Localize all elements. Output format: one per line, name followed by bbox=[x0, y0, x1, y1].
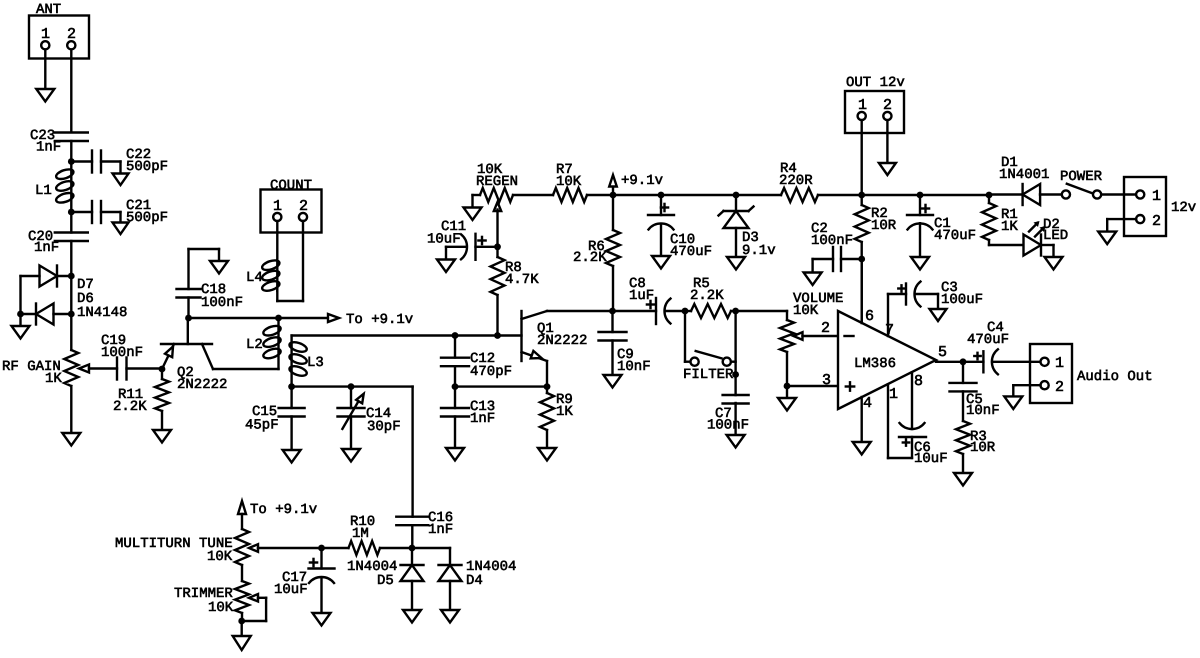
switch POWER bbox=[1062, 184, 1101, 199]
wire bbox=[70, 386, 72, 433]
wire bbox=[241, 613, 243, 621]
inductor L4 bbox=[261, 259, 281, 293]
label pin4 bbox=[863, 395, 872, 412]
svg-text:1: 1 bbox=[858, 97, 867, 114]
label 1N4004 D5 bbox=[347, 559, 397, 589]
wire rail bbox=[920, 194, 989, 196]
label 1N4004 D4 bbox=[466, 559, 516, 589]
wire pin4 bbox=[861, 397, 863, 442]
wire bbox=[734, 311, 736, 395]
label Q2 2N2222 bbox=[177, 365, 227, 393]
switch FILTER bbox=[691, 351, 731, 366]
svg-text:9.1v: 9.1v bbox=[742, 243, 776, 259]
node bbox=[68, 273, 75, 280]
resistor R9 bbox=[540, 387, 554, 448]
label pin5 bbox=[938, 344, 947, 361]
wire pin7 bbox=[887, 294, 889, 336]
potentiometer RF GAIN 1K bbox=[64, 350, 117, 386]
svg-text:REGEN: REGEN bbox=[476, 174, 518, 190]
svg-text:220R: 220R bbox=[779, 173, 813, 189]
potentiometer VOLUME 10K bbox=[780, 311, 838, 386]
potentiometer REGEN 10K bbox=[473, 188, 514, 247]
label To +9.1v bbox=[346, 312, 413, 328]
label C1 470uF bbox=[934, 216, 976, 244]
label RF GAIN 1K bbox=[2, 359, 62, 387]
svg-text:1: 1 bbox=[1055, 355, 1064, 372]
label C17 10uF bbox=[274, 570, 308, 598]
svg-text:1K: 1K bbox=[45, 371, 62, 387]
capacitor C21 bbox=[92, 201, 101, 223]
label C13 1nF bbox=[470, 399, 495, 427]
inductor L3 bbox=[288, 336, 308, 387]
wire pin6 bbox=[861, 259, 863, 323]
ground bbox=[604, 375, 622, 388]
svg-text:10K: 10K bbox=[556, 174, 582, 190]
resistor R2 bbox=[855, 195, 869, 259]
label pin7 bbox=[885, 322, 894, 339]
svg-text:3: 3 bbox=[822, 372, 831, 389]
wire bbox=[1107, 219, 1136, 232]
svg-text:D4: D4 bbox=[466, 573, 483, 589]
ground bbox=[36, 89, 54, 102]
op-amp U1 LM386 bbox=[838, 311, 936, 409]
svg-text:2: 2 bbox=[1055, 379, 1064, 396]
ground bbox=[804, 273, 822, 286]
wire bbox=[70, 241, 72, 276]
label C14 30pF bbox=[366, 406, 401, 435]
capacitor C2 bbox=[833, 247, 862, 271]
label POWER bbox=[1060, 169, 1103, 185]
svg-text:Audio Out: Audio Out bbox=[1077, 369, 1153, 385]
capacitor C14 variable bbox=[338, 387, 365, 449]
ground bbox=[954, 473, 972, 486]
wire bbox=[731, 361, 736, 363]
label C23 1nF bbox=[30, 128, 61, 156]
arrow to +9.1v bbox=[328, 314, 339, 322]
ground bbox=[233, 636, 251, 650]
svg-text:4.7K: 4.7K bbox=[505, 272, 539, 288]
transistor Q1 bbox=[522, 311, 613, 387]
wire bbox=[989, 244, 1023, 246]
ground bbox=[464, 208, 482, 221]
svg-text:10nF: 10nF bbox=[966, 403, 1000, 419]
resistor R4 bbox=[781, 188, 818, 202]
diode D6 bbox=[36, 304, 54, 325]
wire bbox=[71, 160, 92, 162]
resistor R6 bbox=[606, 195, 620, 311]
node bbox=[494, 243, 501, 250]
svg-text:To +9.1v: To +9.1v bbox=[346, 312, 413, 328]
svg-text:1K: 1K bbox=[1001, 219, 1018, 235]
wire bbox=[411, 387, 413, 517]
inductor L1 bbox=[55, 162, 75, 213]
svg-text:L3: L3 bbox=[307, 355, 324, 371]
wire bbox=[1013, 385, 1040, 396]
ground bbox=[441, 610, 459, 623]
svg-text:2.2K: 2.2K bbox=[690, 288, 724, 304]
svg-text:2: 2 bbox=[299, 198, 308, 215]
svg-text:1N4001: 1N4001 bbox=[999, 167, 1049, 183]
capacitor C6 bbox=[888, 384, 926, 458]
arrow +9.1v bbox=[609, 175, 617, 195]
wire bbox=[240, 621, 242, 636]
svg-text:L2: L2 bbox=[246, 337, 263, 353]
node bbox=[238, 618, 245, 625]
wire bbox=[71, 211, 92, 213]
label pin3 plus bbox=[822, 372, 854, 391]
led D2 bbox=[1024, 221, 1046, 256]
node bbox=[544, 383, 551, 390]
wire bbox=[587, 194, 613, 196]
svg-text:6: 6 bbox=[865, 308, 874, 325]
ground bbox=[911, 257, 929, 270]
node bbox=[348, 383, 355, 390]
wire rail bbox=[736, 194, 781, 196]
capacitor C15 bbox=[279, 387, 305, 450]
wire bbox=[446, 247, 467, 260]
label C8 1uF bbox=[629, 276, 654, 304]
wire bbox=[685, 311, 691, 362]
wire rail bbox=[613, 194, 661, 196]
svg-text:7: 7 bbox=[885, 322, 894, 339]
svg-text:L1: L1 bbox=[35, 183, 52, 199]
wire bbox=[70, 49, 72, 132]
wire bbox=[101, 162, 121, 174]
connector J1 ANT bbox=[29, 2, 89, 59]
wire bbox=[70, 276, 72, 314]
label R10 1M bbox=[350, 514, 375, 542]
label D2 LED bbox=[1043, 217, 1068, 244]
svg-text:45pF: 45pF bbox=[245, 418, 279, 434]
svg-text:2: 2 bbox=[1152, 213, 1161, 230]
svg-text:470uF: 470uF bbox=[967, 332, 1009, 348]
label D7 bbox=[77, 277, 94, 293]
zener diode D3 9.1v bbox=[719, 195, 754, 257]
node bbox=[452, 332, 459, 339]
ground bbox=[538, 448, 556, 461]
svg-text:100nF: 100nF bbox=[101, 345, 143, 361]
wire bbox=[665, 310, 685, 312]
label C9 10nF bbox=[617, 347, 651, 375]
diode D1 bbox=[1023, 184, 1041, 205]
capacitor C7 bbox=[723, 395, 749, 435]
wire bbox=[213, 368, 279, 370]
svg-text:500pF: 500pF bbox=[126, 210, 168, 226]
label C7 100nF bbox=[707, 406, 749, 434]
svg-text:30pF: 30pF bbox=[367, 419, 401, 435]
node bbox=[159, 366, 166, 373]
svg-text:L4: L4 bbox=[246, 270, 263, 286]
svg-text:12v: 12v bbox=[1171, 200, 1196, 216]
arrow to +9.1v bbox=[238, 501, 246, 529]
label D6 1N4148 bbox=[77, 291, 127, 321]
connector J2 COUNT bbox=[261, 178, 322, 233]
capacitor C4 bbox=[974, 349, 998, 374]
label Audio Out bbox=[1077, 369, 1153, 385]
label C21 500pF bbox=[126, 198, 168, 226]
svg-text:470pF: 470pF bbox=[470, 364, 512, 380]
wire bbox=[44, 49, 46, 89]
ground bbox=[727, 257, 745, 270]
wire bbox=[19, 314, 21, 326]
label D1 1N4001 bbox=[999, 155, 1049, 183]
wire pin5 bbox=[936, 361, 983, 363]
label TRIMMER 10K bbox=[174, 586, 234, 616]
svg-text:1nF: 1nF bbox=[36, 140, 61, 156]
node bbox=[288, 383, 295, 390]
label R9 1K bbox=[556, 392, 573, 420]
label R4 220R bbox=[779, 161, 813, 189]
label R1 1K bbox=[1001, 207, 1018, 235]
wire bbox=[241, 565, 243, 581]
wire bbox=[57, 275, 71, 277]
ground bbox=[113, 174, 129, 186]
ground bbox=[62, 433, 80, 446]
wire rail bbox=[661, 194, 736, 196]
label C20 1nF bbox=[28, 229, 59, 256]
capacitor C9 bbox=[599, 311, 627, 375]
node bbox=[858, 256, 865, 263]
wire rail bbox=[818, 194, 862, 196]
wire bbox=[1040, 193, 1062, 195]
svg-text:2: 2 bbox=[821, 320, 830, 337]
label R11 2.2K bbox=[113, 387, 147, 415]
label C11 10uF bbox=[427, 219, 466, 248]
ground bbox=[652, 256, 670, 269]
node bbox=[185, 315, 192, 322]
node bbox=[784, 383, 791, 390]
node bbox=[275, 315, 282, 322]
label Q1 2N2222 bbox=[537, 321, 587, 349]
varactor diode D5 1N4004 bbox=[401, 548, 424, 610]
svg-text:1: 1 bbox=[889, 386, 898, 403]
svg-text:1: 1 bbox=[273, 198, 282, 215]
svg-text:2.2K: 2.2K bbox=[573, 250, 607, 266]
svg-text:5: 5 bbox=[938, 344, 947, 361]
svg-text:D5: D5 bbox=[377, 573, 394, 589]
svg-text:2N2222: 2N2222 bbox=[537, 333, 587, 349]
svg-text:2: 2 bbox=[67, 26, 76, 43]
capacitor C20 bbox=[55, 233, 88, 242]
wire bbox=[127, 367, 163, 369]
svg-text:470uF: 470uF bbox=[670, 244, 712, 260]
label +9.1v bbox=[621, 173, 663, 189]
resistor R3 bbox=[956, 421, 970, 473]
wire to +9.1v bbox=[189, 317, 329, 319]
svg-text:1K: 1K bbox=[556, 404, 573, 420]
label R3 10R bbox=[970, 429, 996, 456]
svg-text:1N4148: 1N4148 bbox=[77, 305, 127, 321]
node bbox=[960, 358, 967, 365]
ground bbox=[930, 309, 947, 321]
capacitor C11 bbox=[461, 234, 498, 260]
resistor R8 bbox=[491, 247, 505, 336]
ground bbox=[778, 398, 796, 411]
wire bbox=[277, 221, 303, 301]
wire bbox=[1101, 193, 1136, 195]
wire bbox=[21, 313, 37, 315]
node bbox=[682, 308, 689, 315]
svg-text:ANT: ANT bbox=[36, 2, 61, 18]
svg-text:10uF: 10uF bbox=[427, 232, 461, 248]
node bbox=[318, 545, 325, 552]
plus bbox=[310, 559, 317, 566]
ground bbox=[1098, 232, 1116, 245]
wire bbox=[54, 313, 72, 315]
transistor Q2 bbox=[161, 318, 213, 369]
label R7 10K bbox=[556, 162, 582, 190]
node bbox=[68, 158, 75, 165]
node bbox=[733, 192, 740, 199]
capacitor C23 bbox=[55, 133, 88, 142]
svg-text:10uF: 10uF bbox=[914, 451, 948, 467]
wire bbox=[786, 386, 788, 398]
varactor diode D4 1N4004 bbox=[439, 565, 462, 610]
potentiometer TRIMMER 10K bbox=[235, 581, 266, 621]
label C18 100nF bbox=[201, 282, 243, 311]
capacitor C10 bbox=[648, 195, 674, 256]
resistor R11 bbox=[155, 369, 169, 430]
label C15 45pF bbox=[245, 404, 279, 434]
wire bbox=[70, 314, 72, 350]
label C19 100nF bbox=[101, 333, 143, 361]
wire bbox=[187, 298, 189, 319]
wire tank line bbox=[292, 385, 413, 387]
capacitor C3 bbox=[888, 282, 921, 307]
resistor R7 bbox=[553, 188, 587, 202]
node bbox=[609, 308, 616, 315]
label L3 bbox=[307, 355, 324, 371]
svg-text:10K: 10K bbox=[793, 303, 819, 319]
svg-text:1uF: 1uF bbox=[629, 288, 654, 304]
label R5 2.2K bbox=[690, 276, 724, 304]
label D3 9.1v bbox=[742, 230, 776, 259]
svg-text:10R: 10R bbox=[871, 218, 897, 234]
node bbox=[986, 192, 993, 199]
node bbox=[409, 545, 416, 552]
node bbox=[732, 371, 739, 378]
label pin1 bbox=[889, 386, 898, 403]
label pin8 bbox=[914, 373, 923, 390]
wire bbox=[736, 310, 787, 312]
label To +9.1v bbox=[250, 502, 317, 518]
wire bbox=[513, 194, 553, 196]
node bbox=[452, 383, 459, 390]
inductor L2 bbox=[262, 318, 282, 369]
ground bbox=[403, 610, 421, 623]
svg-text:1M: 1M bbox=[352, 526, 369, 542]
wire bbox=[989, 193, 1023, 195]
label MULTITURN TUNE 10K bbox=[115, 536, 233, 565]
wire pin6 bbox=[861, 259, 863, 323]
wire bbox=[992, 361, 1040, 363]
svg-text:100uF: 100uF bbox=[941, 292, 983, 308]
potentiometer MULTITURN TUNE 10K bbox=[235, 529, 322, 565]
ground bbox=[879, 163, 896, 175]
connector J5 Audio Out bbox=[1030, 344, 1072, 403]
plus bbox=[922, 205, 929, 212]
svg-text:2.2K: 2.2K bbox=[113, 399, 147, 415]
capacitor C16 bbox=[396, 517, 428, 548]
capacitor C22 bbox=[92, 151, 101, 173]
ground bbox=[153, 430, 171, 443]
label C22 500pF bbox=[126, 147, 168, 175]
svg-text:8: 8 bbox=[914, 373, 923, 390]
wire bbox=[189, 249, 220, 289]
svg-text:POWER: POWER bbox=[1060, 169, 1103, 185]
connector J4 12v bbox=[1124, 177, 1166, 236]
plus bbox=[661, 204, 668, 211]
svg-text:4: 4 bbox=[863, 395, 872, 412]
label FILTER bbox=[683, 367, 734, 383]
svg-text:LED: LED bbox=[1043, 228, 1068, 244]
ground bbox=[853, 442, 871, 455]
svg-text:470uF: 470uF bbox=[934, 228, 976, 244]
wire emitter line bbox=[455, 385, 547, 387]
wire rail bbox=[862, 194, 920, 196]
resistor R1 bbox=[982, 195, 996, 245]
label VOLUME 10K bbox=[793, 291, 843, 319]
label C6 10uF bbox=[914, 440, 948, 467]
label C2 100nF bbox=[811, 221, 853, 249]
ground bbox=[313, 613, 331, 626]
connector J3 OUT 12v bbox=[845, 75, 905, 133]
label L1 bbox=[35, 183, 52, 199]
resistor R5 bbox=[685, 304, 736, 318]
capacitor C18 bbox=[177, 289, 201, 298]
capacitor C12 bbox=[441, 336, 469, 387]
ground bbox=[210, 261, 228, 274]
svg-text:100nF: 100nF bbox=[811, 233, 853, 249]
svg-text:LM386: LM386 bbox=[854, 356, 896, 372]
ground bbox=[12, 326, 30, 339]
label L2 bbox=[246, 337, 263, 353]
node bbox=[858, 192, 865, 199]
wire bbox=[101, 212, 121, 223]
label R8 4.7K bbox=[505, 260, 539, 288]
capacitor C19 bbox=[117, 358, 127, 380]
label R6 2.2K bbox=[573, 239, 607, 266]
wire bbox=[1041, 245, 1054, 257]
diode D7 bbox=[40, 266, 58, 287]
wire bbox=[861, 120, 863, 195]
svg-text:+9.1v: +9.1v bbox=[621, 173, 663, 189]
node bbox=[732, 308, 739, 315]
svg-text:500pF: 500pF bbox=[126, 159, 168, 175]
svg-text:FILTER: FILTER bbox=[683, 367, 734, 383]
capacitor C17 bbox=[309, 548, 335, 613]
svg-text:10R: 10R bbox=[970, 440, 996, 456]
label 12v bbox=[1171, 200, 1196, 216]
node bbox=[17, 311, 24, 318]
capacitor C1 bbox=[907, 195, 933, 257]
svg-text:1: 1 bbox=[1152, 188, 1161, 205]
label pin2 minus bbox=[821, 320, 854, 337]
ground bbox=[1004, 396, 1022, 409]
svg-text:1: 1 bbox=[41, 26, 50, 43]
capacitor C13 bbox=[441, 387, 469, 448]
svg-text:1nF: 1nF bbox=[34, 240, 59, 256]
ground bbox=[446, 448, 464, 461]
node bbox=[917, 192, 924, 199]
svg-text:2: 2 bbox=[883, 97, 892, 114]
wire bbox=[70, 212, 72, 233]
wire bbox=[412, 548, 450, 565]
ground bbox=[437, 260, 455, 273]
label C3 100uF bbox=[941, 280, 983, 308]
ground bbox=[342, 449, 360, 462]
node bbox=[68, 311, 75, 318]
